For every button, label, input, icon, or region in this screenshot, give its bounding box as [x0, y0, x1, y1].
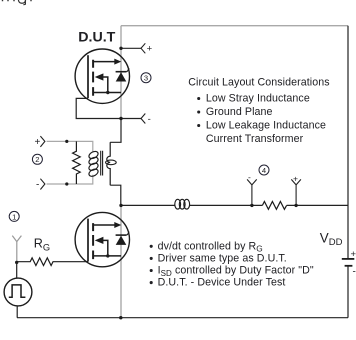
- wire: D.U.T gate-source loop: [76, 98, 121, 118]
- battery VDD positive plate: [342, 258, 355, 260]
- svg-text:-: -: [248, 172, 251, 182]
- wire: D.U.T drain probe lead: [121, 47, 141, 49]
- node 2 circled: [32, 154, 42, 164]
- wire: top rail (grey): [121, 25, 348, 27]
- svg-text:D.U.T: D.U.T: [78, 29, 115, 45]
- junction: node2 lower dot: [65, 182, 68, 185]
- junction: drain probe dot: [119, 47, 122, 50]
- svg-text:Current Transformer: Current Transformer: [206, 133, 304, 145]
- wire: bottom rail: [17, 317, 348, 319]
- wire: source jog to transformer secondary: [110, 119, 121, 143]
- wire: secondary to driver drain jog: [110, 185, 121, 205]
- svg-text:+: +: [35, 137, 41, 148]
- svg-text:Ground Plane: Ground Plane: [206, 106, 273, 118]
- resistor R_G: [17, 258, 88, 266]
- svg-text:2: 2: [35, 155, 39, 164]
- svg-text:Low Leakage Inductance: Low Leakage Inductance: [206, 120, 326, 132]
- wire: drain bus vertical upper (grey): [120, 26, 122, 119]
- resistor: current sense: [262, 202, 286, 210]
- svg-text:VDD: VDD: [320, 231, 343, 249]
- svg-text:1: 1: [12, 212, 16, 221]
- svg-text:-: -: [353, 267, 356, 278]
- wire: right rail lower: [347, 267, 349, 318]
- junction: sense minus dot: [250, 204, 253, 207]
- terminal fork: node 2 minus input: [40, 179, 45, 190]
- node 4 circled: [259, 165, 269, 175]
- wire: drain branch to inductor: [121, 204, 175, 206]
- cropped text remnant top-left: [3, 0, 32, 1]
- svg-text:-: -: [36, 179, 39, 190]
- node 1 circled: [9, 211, 19, 221]
- note: bottom bullet list: [150, 245, 153, 248]
- wire: node 2 upper lead (grey): [47, 141, 93, 152]
- terminal fork: node 2 plus input: [40, 136, 45, 147]
- wire: right rail upper: [347, 26, 349, 258]
- transistor Q1: D.U.T MOSFET: [75, 49, 129, 103]
- resistor: transformer damping resistor: [73, 141, 81, 184]
- pulse generator source: [4, 278, 32, 306]
- node 3 circled: [141, 73, 151, 83]
- inductor: transformer primary coil: [88, 150, 100, 178]
- junction: source probe dot: [119, 117, 122, 120]
- junction: node2 upper dot: [65, 140, 68, 143]
- junction: driver drain node dot: [119, 204, 122, 207]
- cropped text remnant glyph q: [19, 0, 26, 5]
- svg-text:3: 3: [144, 74, 148, 83]
- wire: drain bus vertical lower (grey): [120, 205, 122, 317]
- wire: D.U.T source probe wire: [121, 118, 141, 120]
- svg-text:Low Stray Inductance: Low Stray Inductance: [206, 93, 310, 105]
- wire: pulse generator top lead: [16, 262, 18, 278]
- svg-text:Circuit Layout Considerations: Circuit Layout Considerations: [188, 76, 329, 88]
- terminal fork: source probe -: [141, 114, 145, 124]
- battery VDD negative plate: [345, 265, 353, 267]
- junction: source-rail dot: [119, 316, 122, 319]
- svg-text:-: -: [148, 114, 151, 125]
- transistor Q2: driver MOSFET: [75, 212, 129, 266]
- pulse waveform symbol: [9, 285, 26, 297]
- wire: node 2 lower lead (grey): [47, 175, 93, 184]
- wire: pulse generator bottom lead: [16, 306, 18, 318]
- inductor: transformer secondary (current transformer): [107, 142, 110, 185]
- svg-text:4: 4: [262, 166, 266, 175]
- svg-text:+: +: [351, 249, 356, 260]
- wire: inductor to resistor: [190, 204, 263, 206]
- transformer core: [101, 151, 103, 176]
- terminal fork: sense minus: [247, 179, 257, 205]
- junction: sense plus dot: [294, 204, 297, 207]
- wire: resistor to VDD rail: [287, 204, 348, 206]
- svg-text:+: +: [293, 173, 298, 183]
- svg-text:D.U.T. - Device Under Test: D.U.T. - Device Under Test: [158, 277, 286, 289]
- inductor L stray: [175, 199, 190, 209]
- terminal fork: sense plus: [291, 179, 301, 205]
- svg-text:Driver same type as D.U.T.: Driver same type as D.U.T.: [158, 252, 287, 264]
- svg-text:RG: RG: [34, 237, 50, 253]
- terminal fork: drain probe +: [141, 43, 145, 53]
- svg-text:+: +: [147, 44, 153, 55]
- terminal fork: gate drive probe (grey): [12, 236, 21, 263]
- junction: pulse generator node dot: [15, 261, 18, 264]
